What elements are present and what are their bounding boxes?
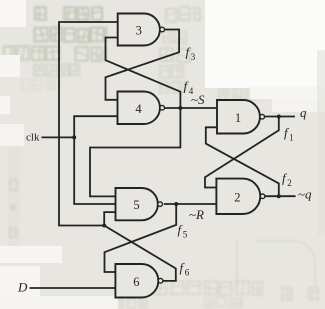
svg-text:5: 5 bbox=[183, 229, 188, 239]
svg-text:q: q bbox=[300, 105, 307, 120]
svg-text:~q: ~q bbox=[298, 187, 312, 202]
svg-text:4: 4 bbox=[135, 102, 142, 116]
svg-text:6: 6 bbox=[185, 267, 190, 277]
svg-text:6: 6 bbox=[133, 275, 139, 289]
svg-text:2: 2 bbox=[287, 178, 292, 188]
svg-text:clk: clk bbox=[26, 132, 40, 144]
svg-text:1: 1 bbox=[235, 111, 241, 125]
svg-text:1: 1 bbox=[289, 133, 294, 143]
svg-text:2: 2 bbox=[234, 190, 240, 204]
svg-text:5: 5 bbox=[133, 198, 139, 212]
svg-text:~S: ~S bbox=[191, 92, 205, 107]
svg-text:~R: ~R bbox=[189, 207, 204, 222]
svg-text:3: 3 bbox=[136, 24, 142, 38]
svg-text:3: 3 bbox=[191, 52, 196, 62]
svg-text:D: D bbox=[17, 280, 28, 295]
